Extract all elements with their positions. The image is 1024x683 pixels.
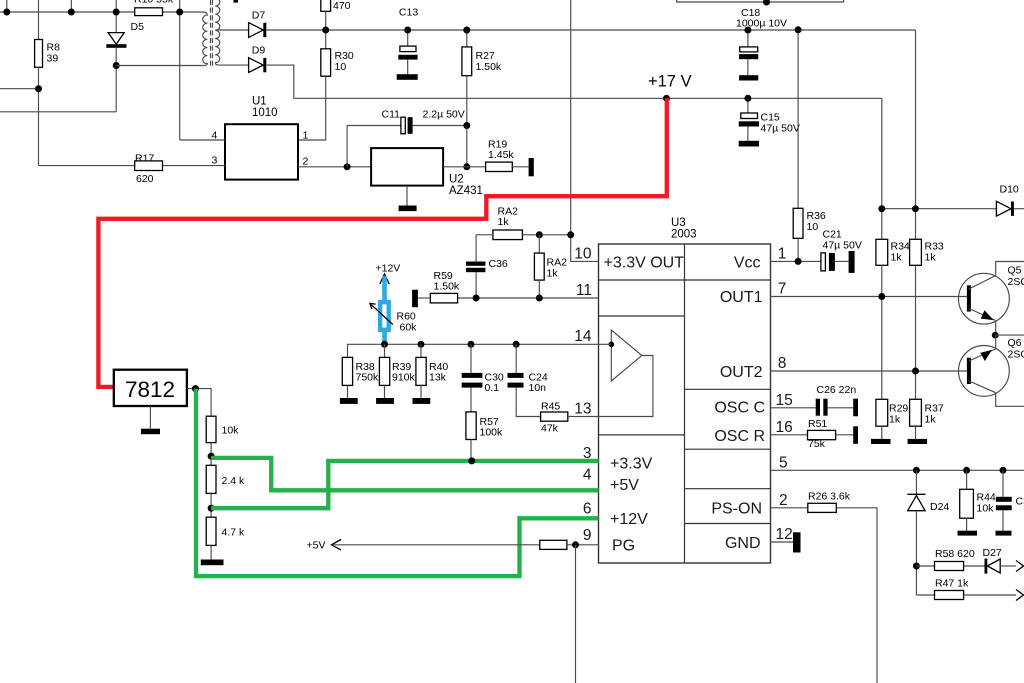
transistor Q6 (959, 335, 1024, 406)
resistor R19 1.45k (486, 139, 515, 172)
resistor R47 1k (916, 578, 1016, 600)
svg-text:2: 2 (303, 156, 309, 168)
capacitor C26 22n (816, 384, 857, 416)
svg-text:+12V: +12V (376, 263, 401, 275)
wire secondary bottom to D9 (219, 64, 249, 66)
resistor R30 10 (321, 49, 354, 76)
svg-text:C37: C37 (1016, 496, 1024, 508)
wire U1 pin3 to R17 (163, 165, 226, 167)
svg-text:+5V: +5V (610, 477, 639, 494)
svg-text:R10 55k: R10 55k (134, 0, 174, 6)
resistor R38 750k (342, 357, 379, 398)
svg-text:1k: 1k (925, 252, 937, 264)
top box component cut at edge (677, 0, 844, 2)
svg-text:0.1: 0.1 (485, 382, 500, 394)
svg-text:7: 7 (778, 281, 787, 298)
connector arrow D27 row (1016, 561, 1024, 572)
wire PG resistor to pin9 (567, 544, 599, 546)
green wire +5V pin4 (211, 458, 598, 490)
node green 3.3V / R57 (468, 457, 475, 464)
node rail30 / R30 (322, 27, 329, 34)
wire terminal to R59 (418, 297, 430, 299)
wire stub to top edge at x=6.8 (6, 0, 8, 12)
transformer T1 core (211, 0, 213, 68)
svg-text:1k: 1k (889, 414, 901, 426)
resistor R39 910k (379, 344, 415, 398)
node top rail / D5 branch (113, 9, 120, 16)
terminal bar after C21 (849, 251, 855, 273)
svg-text:8: 8 (778, 355, 787, 372)
wire C36 bottom to pin11 line (475, 272, 477, 298)
svg-text:1: 1 (778, 245, 787, 262)
wire rail30 corner down to R33 column (915, 30, 917, 239)
resistor R59 1.50k (430, 270, 460, 303)
svg-text:910k: 910k (392, 372, 416, 384)
wire 7812 ground (149, 406, 151, 429)
svg-text:3: 3 (583, 445, 592, 462)
svg-text:Q5: Q5 (1008, 265, 1022, 277)
IC pin8 OUT2 wire to Q6 (771, 370, 967, 372)
arrow head +5V (332, 540, 342, 551)
ground C13 (397, 74, 418, 80)
node OUT2 / R33 column (912, 368, 919, 375)
wire left stub y=88.7 (0, 88, 39, 90)
svg-text:R58 620: R58 620 (935, 548, 975, 560)
svg-text:C36: C36 (489, 258, 508, 270)
capacitor C36 (466, 258, 508, 272)
svg-text:47µ 50V: 47µ 50V (761, 123, 800, 135)
diode D7 (249, 10, 267, 38)
svg-text:1.50k: 1.50k (476, 61, 502, 73)
svg-text:PG: PG (612, 538, 635, 555)
svg-text:OUT2: OUT2 (720, 364, 763, 381)
svg-text:+5V: +5V (307, 540, 326, 552)
node divider 2.4k/4.7k (208, 505, 215, 512)
capacitor C18 1000u 10V (736, 7, 787, 75)
svg-text:2.2µ 50V: 2.2µ 50V (423, 108, 465, 120)
voltage regulator 7812 (114, 370, 187, 406)
wire lower-left return y=111.8 (0, 111, 116, 113)
blue wire +12V to R60 (382, 276, 387, 300)
node U2 out / R27 column (463, 163, 470, 170)
node top rail / stub x=71.3 (68, 9, 75, 16)
svg-text:13k: 13k (429, 372, 447, 384)
svg-text:1k: 1k (925, 414, 937, 426)
svg-text:15: 15 (776, 392, 793, 409)
wire PG node to bottom edge (575, 545, 577, 683)
wire 10k to 2.4k (210, 443, 212, 466)
IC pin16 OSC R net (771, 434, 808, 436)
ground R29 (871, 439, 891, 444)
IC pin7 OUT1 wire to Q5 (771, 296, 967, 298)
node rail30 / C18 (744, 27, 751, 34)
wire R19 to terminal (512, 166, 528, 168)
diode D9 (249, 45, 267, 73)
node rail30 / R36 (795, 26, 802, 33)
svg-text:10: 10 (574, 245, 592, 262)
IC U1 1010 (225, 96, 298, 180)
svg-text:+12V: +12V (610, 511, 648, 528)
svg-text:OUT1: OUT1 (720, 289, 763, 306)
ground R37 (908, 439, 928, 444)
resistor R26 3.6k (808, 491, 851, 513)
node +17V rail / red wire (663, 95, 670, 102)
ground U2 (399, 206, 417, 212)
IC pin5 net wire (771, 469, 1024, 471)
diode D27 (983, 547, 1017, 574)
svg-text:D5: D5 (131, 21, 145, 33)
resistor 10k divider (206, 416, 239, 442)
resistor R57 100k (466, 412, 503, 440)
node D10 row / R33 column (912, 205, 919, 212)
node line14 / R60-R39 (381, 341, 388, 348)
wire R33 bottom to R37 (915, 265, 917, 399)
svg-text:1: 1 (303, 130, 309, 142)
wire RA2h right (522, 234, 539, 236)
capacitor C30 0.1 (462, 344, 504, 394)
wire C24 to R45 (516, 388, 540, 417)
svg-text:R26 3.6k: R26 3.6k (808, 491, 851, 503)
node pin5 / R44 (963, 467, 970, 474)
resistor 470 top partial (321, 0, 351, 12)
wire D9 output to corner (266, 65, 294, 98)
wire pin14 line (348, 344, 612, 357)
wire emitter node to right edge (995, 334, 1024, 336)
terminal bar left of R59 (412, 290, 418, 308)
svg-text:2: 2 (779, 492, 788, 509)
wire U2 out to R19 (443, 166, 486, 168)
capacitor C24 10n (508, 344, 548, 394)
svg-text:1.50k: 1.50k (434, 281, 460, 293)
wire C11 right to R27 column (413, 125, 467, 127)
wire D7 output long rail y=30 (266, 29, 915, 31)
svg-text:+17 V: +17 V (648, 73, 692, 91)
svg-text:5: 5 (779, 454, 788, 471)
wire C30 to R57 (470, 388, 472, 412)
diode D5 (106, 21, 144, 48)
svg-text:60k: 60k (400, 322, 418, 334)
resistor R29 1k (876, 399, 909, 439)
wire R8 bottom to node (38, 67, 40, 165)
capacitor C13 (398, 7, 418, 75)
wire top rail y=12 (0, 11, 204, 13)
wire R8 branch vertical x=38.5 (38, 0, 40, 40)
svg-text:6: 6 (583, 500, 592, 517)
wire R57 to green 3.3V line (470, 440, 472, 461)
svg-text:+3.3V: +3.3V (610, 456, 653, 473)
svg-text:1000µ 10V: 1000µ 10V (736, 17, 787, 29)
resistor RA2 1k vertical (534, 235, 567, 298)
svg-text:D9: D9 (252, 45, 266, 57)
svg-text:14: 14 (574, 328, 592, 345)
transistor Q5 (959, 262, 1024, 336)
diode D24 (907, 470, 949, 595)
svg-text:D7: D7 (252, 10, 266, 22)
node rail30 / C13 (404, 27, 411, 34)
wire RA2h left to C36 (476, 235, 493, 262)
svg-text:2SC: 2SC (1008, 276, 1024, 288)
resistor R37 1k (910, 399, 944, 439)
svg-text:U1: U1 (252, 96, 267, 108)
svg-text:470: 470 (333, 0, 351, 12)
wire +17V rail y=98.3 (294, 97, 882, 99)
resistor R33 1k (910, 239, 944, 265)
svg-text:GND: GND (725, 535, 761, 552)
diode D10 (996, 184, 1019, 217)
resistor R36 10 (793, 30, 826, 262)
svg-text:OSC R: OSC R (714, 428, 765, 445)
IC pin15 OSC C net (771, 407, 816, 409)
svg-text:2.4 k: 2.4 k (222, 475, 246, 487)
node pin5 / D24 (913, 467, 920, 474)
IC U2 AZ431 (371, 148, 483, 197)
node line14 / C30 (468, 341, 475, 348)
svg-text:1.45k: 1.45k (488, 149, 514, 161)
svg-text:R47 1k: R47 1k (935, 578, 969, 590)
ground C18 (739, 75, 758, 80)
node U1 pin2 / C11 branch (344, 163, 351, 170)
svg-text:AZ431: AZ431 (449, 185, 483, 197)
ground R44 (958, 531, 978, 536)
wire D5 branch vertical x=116.2 (115, 0, 117, 33)
svg-text:1k: 1k (498, 216, 510, 228)
ground C37 (996, 531, 1012, 536)
IC pin1 Vcc net (771, 260, 822, 262)
svg-text:R45: R45 (541, 401, 560, 413)
wire C11 branch (347, 126, 401, 167)
svg-text:1010: 1010 (252, 107, 278, 119)
svg-text:C26 22n: C26 22n (817, 384, 857, 396)
node RA2h / RA2v top (536, 231, 543, 238)
wire D5 cathode down (115, 48, 117, 112)
terminal bar GND pin12 (793, 532, 801, 552)
wire R27 bottom down through rail (466, 76, 468, 167)
wire D10 to right edge (1014, 208, 1024, 210)
terminal bar after C26 (853, 399, 858, 417)
wire transformer primary bottom y=65.5 (116, 65, 204, 67)
capacitor C21 47u 50V (821, 229, 862, 271)
wire pin11 line (458, 297, 599, 299)
wire U1 pin4 stub (180, 139, 225, 141)
resistor R51 75k (808, 418, 854, 450)
svg-text:13: 13 (574, 401, 591, 418)
arrow head +12V (380, 274, 389, 284)
IC U3 2003 outline (599, 217, 771, 563)
wire pin10 net (539, 235, 598, 262)
svg-text:C11: C11 (382, 108, 401, 120)
resistor R17 620 (135, 153, 163, 186)
svg-text:10: 10 (807, 221, 819, 233)
IC pin12 GND stub (771, 541, 794, 543)
svg-text:10k: 10k (977, 503, 995, 515)
node OUT1 / R34 column (878, 293, 885, 300)
transformer T1 primary coil (203, 12, 208, 66)
svg-text:9: 9 (583, 527, 592, 544)
resistor R58 620 (916, 548, 984, 571)
node C11 / R27 column (463, 122, 470, 129)
resistor R45 47k (541, 401, 568, 435)
svg-text:4: 4 (583, 466, 592, 483)
node top box bottom edge (763, 0, 770, 6)
svg-text:Q6: Q6 (1008, 337, 1022, 349)
resistor R34 1k (876, 239, 910, 265)
node top rail / pin4 branch (176, 9, 183, 16)
resistor R10 55k (134, 0, 174, 16)
node pin5 / C37 (1000, 467, 1007, 474)
node PG / bottom feed (572, 541, 579, 548)
ground R38 (340, 398, 358, 404)
node 7812 output / green 12V (192, 385, 199, 392)
wire D10 row y=208.7 (882, 208, 997, 210)
svg-text:OSC C: OSC C (714, 400, 765, 417)
svg-text:47k: 47k (541, 423, 559, 435)
wire R34 bottom to R29 (881, 265, 883, 399)
ground R40 (413, 398, 431, 404)
svg-text:16: 16 (776, 419, 793, 436)
svg-text:100k: 100k (480, 427, 504, 439)
IC pin2 PS-ON net (771, 507, 808, 509)
resistor R40 13k (416, 344, 449, 398)
wire R45 to pin13 (568, 416, 599, 418)
node pin10 vertical feed (567, 231, 574, 238)
connector arrow R47 row (1016, 590, 1024, 601)
svg-text:39: 39 (47, 53, 59, 65)
node line14 / C24 (513, 341, 520, 348)
capacitor C11 2.2u 50V (382, 108, 465, 134)
node pin11 / C36 (473, 295, 480, 302)
wire 2.4k to 4.7k (210, 493, 212, 517)
svg-text:7812: 7812 (125, 377, 175, 402)
wire U1 pin4 branch vertical x=179.7 (179, 0, 181, 140)
resistor R27 1.50k (462, 30, 502, 76)
svg-text:U3: U3 (671, 217, 686, 229)
wire 7812 output (187, 389, 211, 417)
svg-text:C13: C13 (399, 7, 418, 19)
svg-text:U2: U2 (449, 174, 464, 186)
wire R26 to bottom edge (836, 508, 877, 683)
node Q5 emitter / Q6 emitter (992, 332, 999, 339)
ground C15 (739, 141, 759, 147)
ground R39 (376, 398, 394, 404)
wire U2 bottom to ground (406, 186, 408, 206)
wire 470 to rail30 (325, 11, 327, 49)
svg-text:1k: 1k (891, 252, 903, 264)
svg-text:10: 10 (335, 61, 347, 73)
svg-text:75k: 75k (808, 438, 826, 450)
node +17V rail / C15 (744, 95, 751, 102)
svg-text:D24: D24 (930, 501, 949, 513)
node rail30 / R27 (463, 27, 470, 34)
blue wire R60 to line14 (382, 332, 387, 344)
svg-text:PS-ON: PS-ON (711, 501, 762, 518)
svg-text:10n: 10n (529, 382, 547, 394)
svg-text:11: 11 (576, 282, 592, 299)
svg-text:2003: 2003 (671, 229, 697, 241)
svg-text:750k: 750k (356, 372, 380, 384)
node top rail / stub x=6.8 (3, 9, 10, 16)
ground divider chain (201, 560, 224, 566)
node D5 / transformer primary bottom (113, 62, 120, 69)
wire vertical feed x=570.7 from top (570, 0, 572, 235)
green wire +12V pin6 (196, 389, 599, 576)
capacitor C37 (996, 470, 1024, 530)
svg-text:Vcc: Vcc (734, 255, 761, 272)
resistor 4.7k divider (206, 517, 245, 545)
resistor R8 39 (35, 40, 60, 68)
node divider 10k/2.4k (208, 453, 215, 460)
wire stub to top edge at x=71.3 (70, 0, 72, 12)
svg-text:R51: R51 (808, 418, 827, 430)
node Vcc / R36 (795, 258, 802, 265)
svg-text:3: 3 (212, 155, 218, 167)
terminal bar after R51 (853, 426, 858, 444)
trimmer arrow across R60 (370, 303, 393, 324)
svg-text:4.7 k: 4.7 k (222, 527, 246, 539)
red wire +17V to 7812 (98, 98, 666, 387)
green wire +3.3V pin3 (211, 461, 598, 508)
svg-text:R17: R17 (135, 153, 154, 165)
svg-text:620: 620 (136, 173, 154, 185)
node R8/left stub junction (35, 85, 42, 92)
op-amp inside U3 (599, 330, 653, 417)
wire +5V arrow line (333, 544, 540, 546)
node pin11 / RA2v (536, 295, 543, 302)
resistor R44 10k (960, 470, 996, 530)
ground 7812 (141, 429, 160, 435)
node D10 row / R34 column (878, 205, 885, 212)
resistor 2.4k divider (206, 465, 245, 493)
transformer top edge stub square (234, 0, 239, 3)
wire +17V rail corner down to R34 column (881, 98, 883, 239)
capacitor C15 47u 50V (739, 98, 800, 141)
svg-text:+3.3V OUT: +3.3V OUT (604, 255, 685, 272)
node D24 column / R58 (913, 563, 920, 570)
wire R30 bottom to U1 pin1 corner (298, 76, 326, 140)
transformer T1 secondary coil (215, 0, 220, 65)
svg-text:2SC: 2SC (1008, 349, 1024, 361)
svg-text:12: 12 (776, 526, 793, 543)
svg-text:47µ 50V: 47µ 50V (823, 240, 862, 252)
svg-text:1k: 1k (547, 268, 559, 280)
wire secondary tap to D7 (216, 29, 249, 31)
svg-text:D27: D27 (983, 547, 1002, 559)
svg-text:D10: D10 (1000, 184, 1019, 196)
potentiometer R60 60k blue body (380, 302, 417, 333)
svg-text:10k: 10k (222, 425, 240, 437)
resistor RA2 1k horizontal (493, 206, 523, 240)
wire U1 pin2 to U2 (298, 166, 371, 168)
wire 4.7k to ground (210, 545, 212, 559)
wire R17 left to R8 column (39, 165, 135, 167)
terminal bar after R19 (529, 158, 534, 176)
node line14 / R40 (418, 341, 425, 348)
resistor PG series (540, 540, 567, 549)
